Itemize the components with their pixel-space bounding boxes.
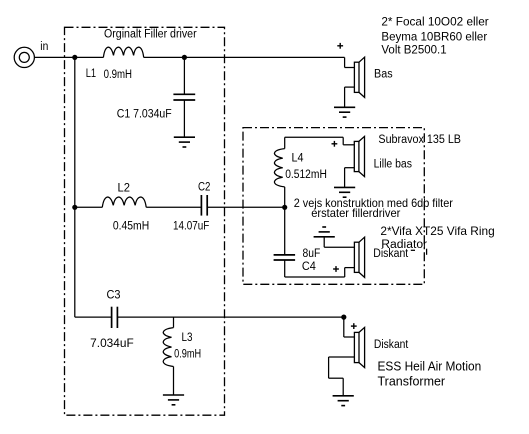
svg-text:Subravox 135 LB: Subravox 135 LB (378, 134, 461, 146)
wire node C to L2 (75, 206, 103, 208)
inductor L2 (102, 197, 146, 207)
node D junction dot (282, 205, 287, 210)
wire ESS Diskant speaker to ground (329, 357, 355, 396)
dashed box: 2-way section (243, 128, 424, 285)
wire L1 to node B (144, 56, 185, 58)
stray mark near border (411, 249, 427, 255)
svg-text:0.9mH: 0.9mH (104, 69, 132, 81)
input connector J1 (14, 47, 34, 67)
svg-text:Diskant: Diskant (374, 339, 409, 351)
wire input to node A (34, 56, 75, 58)
svg-text:erstater fillerdriver: erstater fillerdriver (311, 206, 400, 220)
svg-text:2* Focal 10O02 eller: 2* Focal 10O02 eller (381, 15, 488, 29)
ground for L3 (163, 395, 184, 405)
wire L2 to C2 (146, 206, 201, 208)
svg-text:Transformer: Transformer (378, 375, 446, 389)
svg-text:Volt B2500.1: Volt B2500.1 (381, 43, 446, 57)
svg-text:Bas: Bas (374, 69, 393, 81)
svg-text:L2: L2 (118, 183, 131, 195)
svg-text:0.512mH: 0.512mH (285, 169, 327, 181)
svg-text:C4: C4 (302, 261, 317, 273)
svg-text:0.45mH: 0.45mH (113, 221, 149, 233)
ground for Bas speaker (334, 107, 355, 117)
wire inverted ground to sub Diskant top (324, 237, 354, 247)
svg-text:Beyma 10BR60 eller: Beyma 10BR60 eller (381, 30, 487, 44)
inductor L3 (173, 317, 175, 328)
capacitor C4 (274, 207, 296, 277)
svg-text:L1: L1 (86, 68, 96, 80)
node A junction dot (72, 55, 77, 60)
speaker sub Diskant (354, 237, 364, 277)
plus polarity mark for Bas speaker (337, 43, 343, 49)
svg-text:L4: L4 (292, 152, 305, 164)
capacitor C3 (75, 307, 118, 328)
ground for C1 (174, 137, 195, 147)
svg-text:14.07uF: 14.07uF (173, 221, 209, 233)
plus polarity mark for sub Diskant (333, 266, 339, 272)
svg-text:8uF: 8uF (303, 248, 321, 260)
wire Bas speaker to ground (345, 87, 355, 107)
svg-text:Diskant: Diskant (373, 248, 409, 260)
svg-text:ESS Heil Air Motion: ESS Heil Air Motion (378, 360, 482, 374)
svg-text:2*Vifa XT25 Vifa Ring: 2*Vifa XT25 Vifa Ring (380, 224, 494, 238)
svg-text:Lille bas: Lille bas (374, 158, 413, 170)
plus polarity mark for Lille bas (332, 141, 338, 147)
wire Lille bas speaker to ground (345, 168, 355, 188)
capacitor C1 (173, 57, 195, 137)
svg-text:Orginalt Filler driver: Orginalt Filler driver (104, 28, 197, 40)
wire main vertical bus node A down (74, 57, 76, 317)
inverted ground for sub Diskant (314, 227, 335, 237)
plus polarity mark for ESS Diskant (351, 323, 357, 329)
ground for Lille bas speaker (334, 187, 355, 197)
wire C3 to node E (117, 316, 343, 318)
wire L4 top to Lille bas speaker (285, 137, 355, 145)
wire node B to Bas speaker (184, 57, 354, 67)
wire node E to ESS Diskant speaker (344, 317, 355, 337)
node E junction dot (341, 315, 346, 320)
inductor L4 (284, 137, 286, 148)
svg-text:in: in (40, 41, 48, 53)
node C junction dot (72, 205, 77, 210)
speaker ESS Diskant (354, 327, 364, 367)
svg-text:C1 7.034uF: C1 7.034uF (117, 106, 172, 120)
svg-text:0.9mH: 0.9mH (174, 349, 201, 361)
svg-text:C3: C3 (107, 290, 121, 302)
wire C4 to sub Diskant speaker (285, 268, 355, 277)
node B junction dot (182, 55, 187, 60)
svg-text:7.034uF: 7.034uF (90, 338, 134, 350)
speaker Bas (354, 57, 364, 97)
svg-text:C2: C2 (198, 182, 210, 194)
inductor L1 (103, 47, 143, 57)
svg-text:L3: L3 (182, 332, 193, 344)
ground for ESS Diskant speaker (333, 396, 354, 406)
wire node A to L1 (75, 56, 104, 58)
capacitor C2 (201, 195, 207, 216)
speaker Lille bas (354, 136, 364, 176)
wire C2 to node D (207, 206, 285, 208)
dashed box: Orginalt Filler driver section (65, 27, 225, 415)
